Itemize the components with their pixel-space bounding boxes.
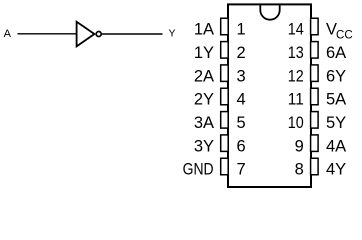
pin 4 stub xyxy=(221,88,229,105)
svg-text:2: 2 xyxy=(237,44,246,62)
svg-text:5Y: 5Y xyxy=(326,114,346,132)
svg-text:Y: Y xyxy=(168,28,175,40)
svg-text:9: 9 xyxy=(295,137,304,155)
svg-text:3: 3 xyxy=(237,67,246,85)
pin 14 stub xyxy=(311,18,319,35)
svg-text:1Y: 1Y xyxy=(194,44,214,62)
pin 11 stub xyxy=(311,88,319,105)
svg-text:13: 13 xyxy=(288,44,304,62)
svg-text:4A: 4A xyxy=(326,137,346,155)
svg-text:8: 8 xyxy=(295,161,304,179)
wire inverter output to Y xyxy=(102,33,163,35)
pin 2 stub xyxy=(221,42,229,59)
svg-text:4Y: 4Y xyxy=(326,161,346,179)
svg-text:7: 7 xyxy=(237,161,246,179)
inverter gate U1 (triangle) xyxy=(77,22,95,47)
wire A to inverter input xyxy=(18,33,77,35)
IC U2 14-pin DIP package body xyxy=(228,4,311,187)
svg-text:14: 14 xyxy=(288,21,304,39)
pin 13 stub xyxy=(311,42,319,59)
svg-text:10: 10 xyxy=(288,114,304,132)
svg-text:2Y: 2Y xyxy=(194,91,214,109)
svg-text:5A: 5A xyxy=(326,91,346,109)
svg-text:2A: 2A xyxy=(194,67,214,85)
pin 8 stub xyxy=(311,158,319,175)
pin 6 stub xyxy=(221,135,229,152)
svg-text:4: 4 xyxy=(237,91,246,109)
svg-text:6Y: 6Y xyxy=(326,67,346,85)
pin 5 stub xyxy=(221,112,229,129)
svg-text:3A: 3A xyxy=(194,114,214,132)
svg-text:1: 1 xyxy=(237,21,246,39)
pin 9 stub xyxy=(311,135,319,152)
svg-text:A: A xyxy=(4,28,12,40)
pin 12 stub xyxy=(311,65,319,82)
svg-text:3Y: 3Y xyxy=(194,137,214,155)
svg-text:12: 12 xyxy=(288,67,304,85)
svg-text:GND: GND xyxy=(183,161,214,179)
svg-text:6A: 6A xyxy=(326,44,346,62)
pin 3 stub xyxy=(221,65,229,82)
pin 10 stub xyxy=(311,112,319,129)
svg-text:5: 5 xyxy=(237,114,246,132)
svg-text:1A: 1A xyxy=(194,21,214,39)
svg-text:6: 6 xyxy=(237,137,246,155)
inverter U1 output bubble xyxy=(96,32,101,37)
pin 1 stub xyxy=(221,18,229,35)
svg-text:11: 11 xyxy=(288,91,304,109)
pin-1 index notch xyxy=(260,5,279,19)
pin 7 stub xyxy=(221,158,229,175)
